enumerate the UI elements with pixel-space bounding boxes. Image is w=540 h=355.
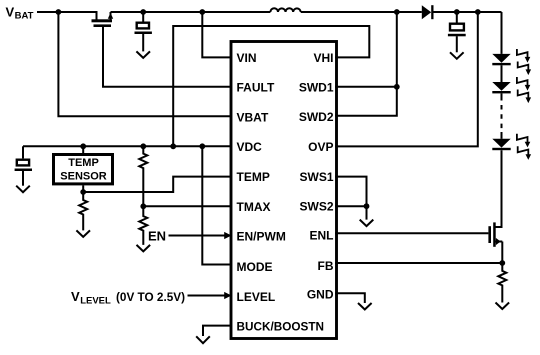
svg-text:BAT: BAT xyxy=(15,11,34,22)
wire rail Q1 drain to inductor xyxy=(111,11,271,13)
inductor L1 xyxy=(270,8,300,12)
wire VDC row xyxy=(23,145,232,147)
junction dot SWD column xyxy=(394,9,400,15)
junction dot VDC divider xyxy=(140,143,146,149)
wire GND pin to ground xyxy=(335,293,365,303)
wire temp sensor output xyxy=(82,185,84,192)
wire TMAX pin xyxy=(143,205,232,207)
junction dot VDC MODE column xyxy=(199,143,205,149)
svg-text:SWD1: SWD1 xyxy=(299,80,334,94)
LED D2 xyxy=(492,54,510,65)
junction dot SWD1 xyxy=(394,84,400,90)
light arrows of D4 xyxy=(517,134,531,160)
wire OVP xyxy=(335,12,478,146)
transistor Q2 NMOS dimming switch xyxy=(488,222,502,246)
wire VBAT rail left xyxy=(37,12,97,20)
svg-text:MODE: MODE xyxy=(237,260,273,274)
wire EN input xyxy=(169,235,226,237)
junction dot VDC temp-sensor xyxy=(80,143,86,149)
svg-text:BUCK/BOOSTN: BUCK/BOOSTN xyxy=(237,319,325,333)
ground of GND pin xyxy=(358,303,372,310)
svg-text:LEVEL: LEVEL xyxy=(80,296,111,307)
wire TEMP pin xyxy=(83,177,232,192)
wire D2 to D3 xyxy=(501,65,503,82)
junction dot TMAX xyxy=(140,203,146,209)
svg-text:EN/PWM: EN/PWM xyxy=(237,229,286,243)
LED D3 xyxy=(492,82,510,93)
ground of R4 xyxy=(496,303,510,310)
ground of SWS xyxy=(360,220,374,227)
net label VLEVEL xyxy=(71,289,185,306)
wire VIN xyxy=(202,12,232,57)
junction dot OVP column xyxy=(475,9,481,15)
ground of R2 xyxy=(137,245,151,252)
ground of R3 xyxy=(76,230,90,237)
transistor Q1 PMOS high-side switch xyxy=(92,12,114,27)
svg-text:VHI: VHI xyxy=(313,51,333,65)
wire diode to LED string corner xyxy=(434,11,502,13)
wire SWS2 xyxy=(335,205,367,207)
LED D4 xyxy=(492,139,510,150)
svg-text:TMAX: TMAX xyxy=(237,200,271,214)
light arrows of D2 xyxy=(517,49,531,75)
ground of C2 xyxy=(16,186,30,193)
ellipsis dashed LED string xyxy=(501,105,503,129)
resistor R4 current sense xyxy=(498,263,506,303)
wire ellipsis to D4 xyxy=(501,132,503,139)
svg-text:FAULT: FAULT xyxy=(237,81,275,95)
junction dot VDC VHI column xyxy=(170,143,176,149)
wire SWD1 xyxy=(335,86,397,88)
svg-text:SENSOR: SENSOR xyxy=(60,170,107,182)
wire LEVEL input xyxy=(188,295,226,297)
svg-text:LEVEL: LEVEL xyxy=(237,290,276,304)
svg-text:FB: FB xyxy=(318,259,334,273)
wire SWS1 xyxy=(335,177,367,220)
capacitor C1 input bypass xyxy=(135,12,152,51)
light arrows of D3 xyxy=(517,77,531,103)
wire BUCK/BOOSTN to ground xyxy=(203,326,232,336)
wire MODE tied to VDC xyxy=(202,146,232,264)
junction dot VIN column xyxy=(199,9,205,15)
svg-text:SWD2: SWD2 xyxy=(299,110,334,124)
junction dot VBAT column xyxy=(56,9,62,15)
wire VDC to temp sensor xyxy=(82,146,84,153)
junction dot SWS2 xyxy=(364,203,370,209)
svg-text:V: V xyxy=(6,4,15,19)
wire D3 to ellipsis xyxy=(501,93,503,100)
svg-text:GND: GND xyxy=(307,288,334,302)
ground of C3 xyxy=(450,52,464,59)
junction dot temp sensor node xyxy=(80,189,86,195)
wire SWD2 xyxy=(335,12,397,116)
svg-text:VIN: VIN xyxy=(237,51,257,65)
temp sensor box xyxy=(54,155,113,184)
ground of C1 xyxy=(136,51,150,58)
svg-text:ENL: ENL xyxy=(310,229,334,243)
svg-text:VBAT: VBAT xyxy=(237,110,269,124)
wire LED string top xyxy=(501,12,503,54)
resistor R1 divider top xyxy=(139,146,147,206)
resistor R2 divider bottom xyxy=(139,206,147,245)
wire VBAT pin xyxy=(58,12,232,116)
resistor R3 temp sensor load xyxy=(79,192,87,230)
wire Q2 source to FB xyxy=(501,242,503,264)
svg-text:TEMP: TEMP xyxy=(237,170,270,184)
capacitor C2 VDC bypass xyxy=(15,146,32,185)
svg-text:SWS2: SWS2 xyxy=(299,200,333,214)
wire D4 to Q2 drain xyxy=(496,150,502,227)
junction dot C3 xyxy=(454,9,460,15)
diode D1 rectifier xyxy=(422,5,434,19)
svg-text:VDC: VDC xyxy=(237,140,263,154)
svg-text:(0V TO 2.5V): (0V TO 2.5V) xyxy=(116,290,185,304)
svg-text:EN: EN xyxy=(148,228,166,243)
arrowhead LEVEL xyxy=(224,292,231,299)
wire ENL to Q2 gate xyxy=(335,232,488,234)
svg-text:OVP: OVP xyxy=(308,140,333,154)
arrowhead EN xyxy=(224,232,231,239)
svg-text:TEMP: TEMP xyxy=(68,157,99,169)
net label VBAT xyxy=(6,4,34,21)
IC U1 LED driver xyxy=(231,42,337,339)
svg-text:SWS1: SWS1 xyxy=(299,170,333,184)
junction dot C1 xyxy=(140,9,146,15)
wire inductor to diode D1 xyxy=(301,11,422,13)
svg-text:V: V xyxy=(71,289,80,304)
junction dot FB xyxy=(499,260,505,266)
capacitor C3 output xyxy=(448,12,466,52)
wire FB row xyxy=(335,262,502,264)
wire VHI to VDC column xyxy=(173,26,369,146)
ground of BUCK/BOOSTN xyxy=(196,336,210,343)
wire FAULT to Q1 gate xyxy=(103,27,232,87)
